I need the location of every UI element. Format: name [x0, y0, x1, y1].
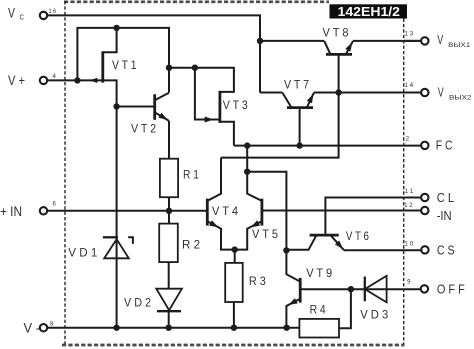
wire R2 to VD2 [168, 262, 170, 288]
wire VT1 base down to VD1 and V- rail [103, 80, 117, 327]
wire VD3 line to OFF terminal [351, 288, 421, 290]
svg-text:V D 3: V D 3 [360, 308, 388, 321]
resistor R1 [160, 159, 199, 198]
diode VD2 [124, 289, 182, 312]
svg-text:ВЫХ1: ВЫХ1 [448, 42, 471, 49]
svg-text:V T 1: V T 1 [112, 59, 137, 72]
wire VT6 base to CL [325, 198, 421, 236]
IC dashed border left [64, 1, 66, 344]
wire VT7 base to FC [299, 108, 301, 146]
svg-text:V: V [8, 6, 15, 21]
svg-text:C L: C L [437, 190, 455, 205]
node R1/R2 junction [166, 208, 172, 214]
wire rail to VT3 top jog [169, 68, 234, 92]
svg-text:V: V [437, 33, 443, 47]
wire VT9 base to VD3 line [300, 288, 351, 290]
node VD1 on rail [113, 325, 119, 331]
IC dashed border top [64, 0, 329, 3]
svg-text:1 1: 1 1 [405, 189, 414, 195]
svg-text:V T 6: V T 6 [346, 230, 369, 243]
svg-text:1 0: 1 0 [404, 241, 414, 247]
wire V+ stub [47, 79, 77, 81]
svg-text:V D 1: V D 1 [68, 247, 97, 260]
transistor VT9 [286, 250, 332, 327]
transistor VT6 [286, 230, 369, 250]
wire VT8 base / VT4 collector link [221, 54, 339, 157]
node VT5 collector on FC [244, 142, 250, 148]
node VT1 collector on top rail [113, 25, 119, 31]
svg-text:1 4: 1 4 [404, 83, 413, 89]
terminal Vout2 pin 14 [404, 83, 472, 101]
node VT7 base on FC [296, 142, 302, 148]
svg-text:F C: F C [436, 138, 453, 153]
node VD2 on rail [166, 325, 172, 331]
wire R4 to VD3 node [339, 289, 351, 328]
wire VT2 emitter to R1 [168, 121, 170, 159]
wire +IN line [47, 210, 206, 212]
transistor VT4 [207, 158, 238, 250]
transistor VT2 [131, 93, 169, 136]
diode VD3 [360, 276, 388, 322]
transistor VT3 [195, 68, 248, 146]
node VT8 base / VT7 emitter [335, 89, 341, 95]
node VT3 emitter feed [192, 65, 198, 71]
svg-text:ВЫХ2: ВЫХ2 [449, 94, 472, 101]
node V+ [74, 77, 80, 83]
terminal +IN pin 6 [0, 201, 57, 219]
part number label 142EH1/2 [330, 4, 408, 19]
wire VT2 base [117, 106, 154, 108]
resistor R3 [225, 263, 266, 302]
wire V+ node up over to VT2 collector [77, 28, 169, 93]
node VT2 base tap [113, 103, 119, 109]
terminal OFF pin 9 [407, 280, 465, 297]
svg-text:V -: V - [24, 320, 41, 335]
wire -IN line [262, 210, 421, 212]
transistor VT8 [323, 27, 354, 55]
node Vc/VT8 collector [257, 38, 263, 44]
transistor VT1 [77, 28, 136, 83]
svg-text:C S: C S [437, 242, 455, 257]
resistor R2 [159, 224, 200, 263]
svg-text:V D 2: V D 2 [124, 297, 151, 310]
node VT9 emitter on rail [283, 325, 289, 331]
node R3 on rail [231, 325, 237, 331]
svg-text:+ IN: + IN [0, 204, 22, 219]
node emitters VT4 VT5 [232, 246, 238, 252]
IC dashed border bottom [62, 344, 405, 347]
svg-text:V T 5: V T 5 [252, 228, 278, 241]
wire Vc rail [47, 15, 260, 92]
wire VT6 emitter to CS [344, 249, 421, 251]
svg-text:1 6: 1 6 [49, 9, 57, 15]
svg-text:O F F: O F F [437, 282, 465, 297]
resistor R4 [299, 304, 339, 338]
wire VT7 collector branch [260, 92, 282, 94]
svg-text:R 3: R 3 [249, 275, 266, 288]
wire pin 13 stub [404, 40, 421, 42]
transistor VT5 [235, 146, 278, 250]
svg-text:C: C [20, 13, 25, 22]
transistor VT7 [282, 79, 314, 108]
svg-text:-IN: -IN [437, 208, 452, 223]
svg-text:V T 7: V T 7 [284, 79, 309, 92]
IC dashed border right [403, 19, 405, 345]
svg-text:V T 3: V T 3 [223, 99, 248, 112]
terminal Vout1 pin 13 [405, 31, 471, 49]
wire VT8 emitter to pin 13 [353, 40, 421, 42]
wire R1 to +IN line [168, 197, 170, 223]
terminal -IN pin 12 [404, 203, 452, 223]
svg-text:V T 9: V T 9 [306, 267, 332, 280]
svg-text:V T 4: V T 4 [212, 205, 239, 218]
terminal CS pin 10 [404, 241, 455, 257]
terminal CL pin 11 [405, 189, 455, 205]
svg-text:V T 2: V T 2 [131, 122, 156, 135]
svg-text:R 1: R 1 [183, 169, 199, 182]
wire FC line [234, 145, 421, 147]
zener diode VD1 [68, 237, 133, 259]
node VT2 collector rail [166, 65, 172, 71]
terminal Vc pin 16 [8, 6, 57, 22]
terminal V- pin 8 [24, 320, 55, 335]
svg-text:V +: V + [8, 73, 25, 88]
svg-text:1 2: 1 2 [404, 203, 413, 209]
terminal V+ pin 4 [8, 73, 57, 88]
wire V- rail [47, 327, 299, 329]
svg-text:1 3: 1 3 [405, 31, 414, 37]
wire VT7 emitter to pin 14 [314, 92, 421, 94]
svg-text:R 2: R 2 [182, 239, 200, 252]
svg-text:V T 8: V T 8 [323, 27, 349, 40]
node VT6/VT9 collectors [283, 247, 289, 253]
svg-text:R 4: R 4 [310, 304, 326, 317]
wire VT8 collector branch [260, 40, 324, 42]
wire R3 to V- rail [233, 302, 235, 328]
terminal FC pin 2 [406, 136, 453, 152]
svg-text:142EH1/2: 142EH1/2 [338, 4, 401, 19]
wire branch to VT6/VT9 collectors [247, 172, 286, 251]
node branch tap [244, 169, 250, 175]
wire VD2 to V- rail [168, 311, 170, 328]
node VD3/R4 tap [348, 286, 354, 292]
wire emitters to R3 [234, 250, 236, 263]
svg-text:V: V [438, 86, 444, 100]
